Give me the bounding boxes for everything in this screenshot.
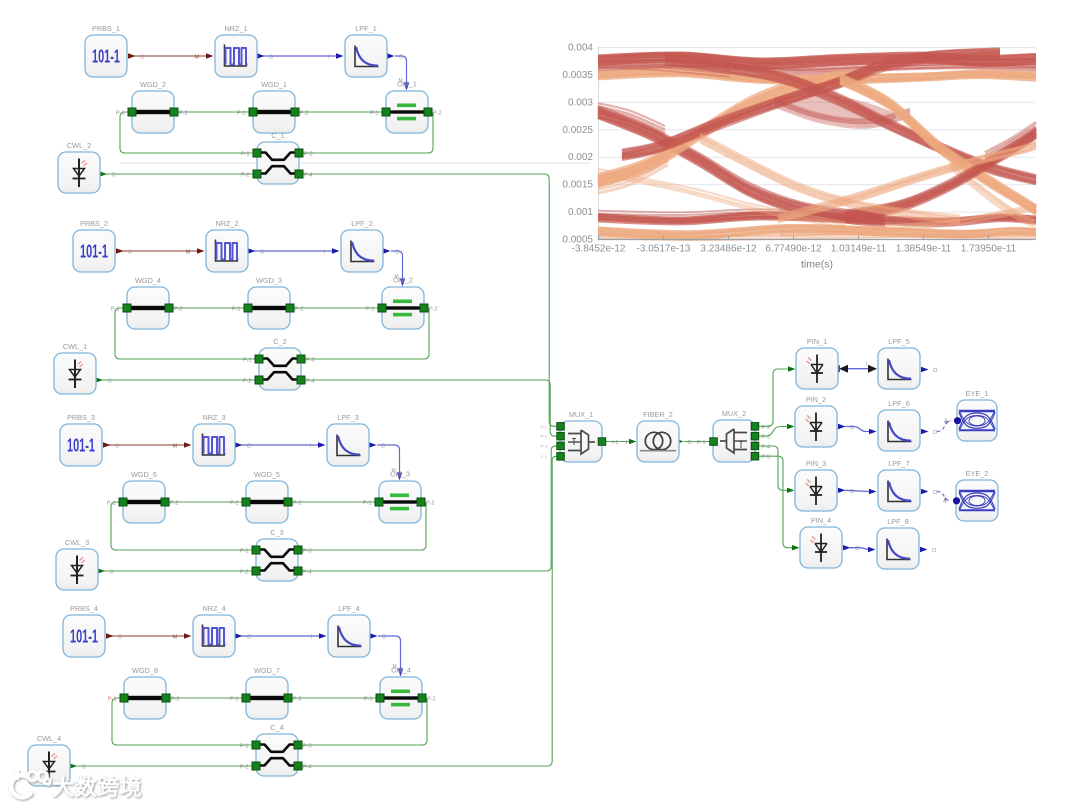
svg-text:101-1: 101-1 [70,627,98,647]
svg-text:P-2: P-2 [427,697,436,703]
svg-text:P-1: P-1 [364,697,373,703]
wire NRZ_4 to LPF_4 [241,635,319,637]
arrow OM_1 mod input [404,83,410,91]
svg-text:P-2: P-2 [300,111,309,117]
wire C_1 P-4 to MUX_1 P-1 [299,174,560,426]
arrow LPF_8 input [868,547,876,552]
port C_1 P-3 [295,149,303,157]
wire OM_2 P-2 loop to C_2 P-3 [301,308,429,359]
port MUX_1 P-4 [557,453,565,461]
arrow CWL_4 output [70,763,78,768]
svg-text:O: O [382,635,387,641]
svg-text:P-1: P-1 [366,307,375,313]
block LPF_1 body [345,35,387,77]
svg-text:CWL_1: CWL_1 [63,342,87,351]
svg-text:P-2: P-2 [241,173,250,179]
port WGD_2 P-2 [170,108,178,116]
svg-text:P-1: P-1 [230,501,239,507]
svg-text:I: I [324,250,325,256]
svg-text:101-1: 101-1 [80,242,108,262]
icon waveguide bar [249,696,285,700]
port C_1 P-2 [253,170,261,178]
svg-text:PRBS_4: PRBS_4 [70,604,98,613]
port C_4 P-3 [294,741,302,749]
svg-text:P-1: P-1 [237,111,246,117]
svg-text:-3.8452e-12: -3.8452e-12 [572,244,626,255]
svg-text:P-2: P-2 [426,501,435,507]
arrow OM_2 mod input [400,279,406,287]
block WGD_8 body [124,677,166,719]
trace bundle red left descending [598,107,885,225]
svg-text:P-3: P-3 [303,744,312,750]
port C_3 P-2 [252,567,260,575]
svg-text:CWL_2: CWL_2 [67,141,91,150]
block MUX_2 body [713,420,755,462]
block C_1 body [257,142,299,184]
svg-text:EYE_1: EYE_1 [966,389,989,398]
arrow PIN_1 link left [839,365,848,373]
port MUX_1 out [598,438,606,446]
arrow OM_4 mod input [398,669,404,677]
wire PRBS_1 to NRZ_1 [129,55,206,57]
wire PIN_4 to LPF_8 [850,548,868,550]
block FIBER_2 body [637,421,679,462]
wire LPF_2 to OM_2 [391,251,403,280]
icon PIN photodiode [806,413,823,442]
svg-text:P-1: P-1 [108,697,117,703]
tick PIN_1 output [838,365,841,372]
svg-text:C_1: C_1 [271,131,284,140]
wire OM_1 P-2 loop to C_1 P-3 [299,112,433,153]
svg-text:OM_4: OM_4 [391,666,411,675]
wire C_3 P-4 to MUX_1 P-3 [298,446,560,571]
svg-text:PRBS_3: PRBS_3 [67,413,95,422]
wire LPF_3 to OM_3 [377,445,400,474]
port OM_3 P-2 [417,498,425,506]
wire PIN_1 to LPF_5 (selected) [841,368,876,370]
block WGD_7 body [246,677,288,719]
trace bundle red right ascending wedge [985,123,1036,167]
svg-text:0.0025: 0.0025 [562,125,593,136]
svg-text:O: O [399,55,404,61]
icon CW laser [43,752,58,781]
arrow LPF_6 input [869,429,877,434]
trace bundle red right ascending [845,129,1036,221]
svg-text:P-2: P-2 [293,697,302,703]
wire NRZ_3 to LPF_3 [241,444,318,446]
icon CW laser [69,360,84,389]
block MUX_1 body [560,421,602,462]
svg-text:6.77490e-12: 6.77490e-12 [765,244,822,255]
arrow NRZ_4 output [235,633,243,638]
trace bundle orange bottom ascending [778,142,1036,222]
arrow LPF_1 output [387,53,395,58]
arrow PRBS_4 output [106,633,114,638]
svg-text:P-1: P-1 [240,744,249,750]
svg-text:PIN_1: PIN_1 [807,337,827,346]
port WGD_6 P-2 [161,498,169,506]
block PRBS_4 body [63,615,105,657]
svg-text:1.03149e-11: 1.03149e-11 [831,244,887,255]
arrow CWL_2 output [100,171,108,176]
wire CWL_3 to C_3 P-2 [101,570,256,572]
icon NRZ waveform [216,240,239,262]
chart x tick 0 [598,236,600,240]
port WGD_5 P-1 [242,498,250,506]
block CWL_2 body [58,152,100,193]
icon NRZ waveform [203,434,226,456]
port C_4 P-1 [252,741,260,749]
port MUX_1 P-3 [557,442,565,450]
svg-text:P-2: P-2 [240,765,249,771]
icon coupler waveguides [259,153,297,174]
block PRBS_2 body [73,230,115,272]
svg-text:P-1: P-1 [243,358,252,364]
icon demux [720,429,747,453]
block C_3 body [256,539,298,581]
icon PIN photodiode [806,477,823,506]
arrow LPF_6 output [921,429,929,434]
icon NRZ waveform [203,625,226,647]
icon mux [568,430,595,454]
arrow LPF_4 input [319,633,327,638]
trace bundle red bottom band [598,213,1036,226]
icon LPF exponential decay [355,46,379,67]
trace bundle orange right descending tail [950,162,1035,227]
block CWL_4 body [28,745,70,786]
wire OM_3 P-2 loop to C_3 P-3 [298,502,426,550]
svg-text:LPF_8: LPF_8 [887,517,909,526]
arrow OM_3 mod input [397,473,403,481]
svg-text:OM_3: OM_3 [390,470,410,479]
arrow NRZ_4 input [184,633,192,638]
block LPF_2 body [341,230,383,272]
port MUX_2 P-4 [751,442,759,450]
svg-text:NRZ_1: NRZ_1 [224,24,247,33]
wire WGD_8 to WGD_7 [166,697,246,699]
svg-text:M: M [173,635,178,641]
port C_3 P-1 [252,546,260,554]
svg-text:WGD_4: WGD_4 [135,276,161,285]
icon modulator electrodes [383,494,417,511]
svg-text:1.38549e-11: 1.38549e-11 [896,244,952,255]
svg-text:WGD_2: WGD_2 [140,80,166,89]
port C_3 P-3 [294,546,302,554]
svg-text:P-4: P-4 [541,454,548,459]
watermark logo [11,770,142,800]
svg-text:O: O [850,489,855,495]
port WGD_4 P-1 [123,304,131,312]
chart eye traces [598,49,1036,240]
icon LPF exponential decay [888,481,912,502]
icon coupler waveguides [258,550,296,571]
wire WGD_6 to WGD_5 [165,501,246,503]
block PIN_4 body [800,527,842,568]
block EYE_1 body [957,400,997,441]
svg-text:LPF_4: LPF_4 [338,604,360,613]
trace bundle orange bottom descending [700,134,960,223]
svg-text:0.003: 0.003 [568,97,593,108]
svg-text:C_3: C_3 [270,528,283,537]
svg-text:P-1: P-1 [232,307,241,313]
trace bundle orange top band [598,68,1036,83]
svg-text:O: O [933,490,938,496]
port OM_1 P-1 [382,108,390,116]
trace bundle orange left slow descending [598,169,845,228]
svg-text:WGD_1: WGD_1 [261,80,287,89]
svg-text:P-3: P-3 [306,358,315,364]
svg-text:WGD_5: WGD_5 [254,470,280,479]
svg-text:P-2: P-2 [429,307,438,313]
block LPF_3 body [327,424,369,466]
icon coupler waveguides [261,359,299,380]
port OM_4 P-2 [418,694,426,702]
port C_2 P-3 [297,355,305,363]
svg-text:O: O [118,635,123,641]
node EYE_2 input [953,497,960,504]
icon LPF exponential decay [888,359,912,380]
svg-text:O: O [260,250,265,256]
chart gridline 0.001 [599,211,1036,213]
port MUX_2 P-2 [751,423,759,431]
icon PIN photodiode [807,355,824,384]
svg-text:P-1: P-1 [116,111,125,117]
svg-text:LPF_7: LPF_7 [888,459,910,468]
svg-text:P-2: P-2 [293,501,302,507]
port C_2 P-1 [255,355,263,363]
svg-text:O: O [395,250,400,256]
svg-text:101-1: 101-1 [92,47,120,67]
icon LPF exponential decay [338,626,362,647]
svg-text:O: O [269,55,274,61]
svg-text:NRZ_4: NRZ_4 [202,604,225,613]
svg-text:1.73950e-11: 1.73950e-11 [961,244,1017,255]
arrow NRZ_2 output [248,248,256,253]
svg-text:I: I [866,362,867,368]
svg-text:LPF_6: LPF_6 [888,399,910,408]
svg-text:OM_1: OM_1 [397,80,417,89]
wire MUX_2 P-2 to PIN_1 [759,369,789,426]
port MUX_1 P-2 [557,432,565,440]
svg-text:O: O [855,546,860,552]
wire LPF_1 to OM_1 [395,56,407,84]
chart x tick 2 [728,236,730,240]
icon waveguide bar [251,306,287,310]
block PIN_2 body [795,406,837,447]
wire WGD_2 P-1 loop to C_1 P-1 [120,112,257,153]
svg-text:M: M [173,444,178,450]
icon LPF exponential decay [887,539,911,560]
arrow LPF_5 link right [868,365,877,373]
port MUX_2 P-3 [751,432,759,440]
arrow LPF_5 output [921,367,929,372]
block OM_1 body [386,91,428,133]
wire PRBS_4 to NRZ_4 [107,635,184,637]
port OM_3 P-1 [375,498,383,506]
trace bundle red left descending wedge [598,103,665,140]
arrow LPF_7 input [869,489,877,494]
chart x-axis [599,235,1036,240]
svg-text:CWL_4: CWL_4 [37,734,61,743]
trace red central dense region [774,93,896,124]
wire WGD_3 to OM_2 [290,307,382,309]
svg-text:M: M [186,250,191,256]
wire WGD_4 P-1 loop to C_2 P-1 [115,308,259,359]
svg-text:P-2: P-2 [541,434,548,439]
arrow LPF_2 output [383,248,391,253]
icon modulator electrodes [390,104,424,121]
svg-text:PIN_4: PIN_4 [811,516,831,525]
icon CW laser [71,556,86,585]
wire CWL_1 to C_2 P-2 [99,379,259,381]
arrow CWL_1 output [96,377,104,382]
wire FIBER_2 to MUX_2 [684,441,713,443]
arrow LPF_8 output [920,547,928,552]
trace bundle red top left wisps [598,61,730,77]
block OM_3 body [379,481,421,523]
svg-text:P-1: P-1 [370,111,379,117]
wire WGD_2 to WGD_1 [174,111,253,113]
arrow PIN_4 output [843,545,851,550]
icon eye diagram [959,491,995,510]
wire CWL_2 to C_1 P-2 [103,173,257,175]
chart gridline 0.0025 [599,129,1036,131]
svg-text:3.23486e-12: 3.23486e-12 [700,244,757,255]
svg-text:FIBER_2: FIBER_2 [643,410,673,419]
wire WGD_5 to OM_3 [288,501,379,503]
icon coupler waveguides [258,745,296,766]
svg-text:PRBS_2: PRBS_2 [80,219,108,228]
arrow EYE_1 input arrow [945,421,950,425]
svg-text:P-1: P-1 [240,549,249,555]
block NRZ_4 body [193,615,235,657]
port OM_2 P-1 [378,304,386,312]
svg-text:P-2: P-2 [762,425,771,431]
svg-text:P-2: P-2 [240,570,249,576]
svg-text:P-2: P-2 [179,111,188,117]
svg-text:WGD_3: WGD_3 [256,276,282,285]
svg-text:MUX_2: MUX_2 [722,409,746,418]
arrow LPF_2 input [332,248,340,253]
port WGD_8 P-1 [120,694,128,702]
block WGD_3 body [248,287,290,329]
chart x tick 1 [663,236,665,240]
block OM_2 body [382,287,424,329]
svg-text:P-1: P-1 [111,307,120,313]
wire WGD_4 to WGD_3 [169,307,248,309]
block LPF_8 body [877,528,919,569]
svg-text:O: O [247,444,252,450]
svg-text:C_2: C_2 [273,337,286,346]
svg-text:PIN_3: PIN_3 [806,459,826,468]
port OM_4 P-1 [376,694,384,702]
icon waveguide bar [135,110,171,114]
svg-text:P-3: P-3 [541,444,548,449]
svg-text:EYE_2: EYE_2 [966,469,989,478]
block EYE_2 body [956,480,998,521]
block LPF_7 body [878,470,920,511]
svg-text:P-1: P-1 [241,152,250,158]
wire PRBS_2 to NRZ_2 [117,250,197,252]
trace bundle orange left ascending wedge [598,150,668,193]
port WGD_7 P-2 [284,694,292,702]
chart gridline 0.0015 [599,184,1036,186]
svg-text:LPF_2: LPF_2 [351,219,373,228]
arrow PIN_3 input [787,488,795,493]
wire WGD_7 to OM_4 [288,697,380,699]
chart y-axis line [598,47,600,240]
svg-text:-3.0517e-13: -3.0517e-13 [637,244,691,255]
arrow LPF_3 output [369,442,377,447]
svg-text:LPF_5: LPF_5 [888,337,910,346]
icon waveguide bar [127,696,163,700]
trace bundle orange bottom lower streak [598,234,1036,240]
svg-text:CWL_3: CWL_3 [65,538,89,547]
icon NRZ waveform [225,45,248,67]
wire PIN_2 to LPF_6 [845,427,869,432]
arrow LPF_4 output [370,633,378,638]
svg-text:NRZ_3: NRZ_3 [202,413,225,422]
svg-text:P-2: P-2 [295,307,304,313]
wire CWL_4 to C_4 P-2 [73,765,256,767]
wire WGD_8 P-1 loop to C_4 P-1 [112,698,256,745]
chart x tick 4 [858,236,860,240]
block LPF_6 body [878,410,920,451]
svg-text:O: O [381,444,386,450]
svg-text:O: O [115,444,120,450]
port MUX_2 P-1 [710,438,718,446]
arrow FIBER_2 output [676,439,684,444]
watermark icon [11,770,50,797]
icon fiber coil [640,432,676,450]
port C_4 P-4 [294,762,302,770]
svg-text:P-2: P-2 [243,379,252,385]
svg-text:P-4: P-4 [303,765,312,771]
svg-text:0.002: 0.002 [568,152,593,163]
svg-text:O: O [688,440,693,446]
chart x tick 3 [793,236,795,240]
block OM_4 body [380,677,422,719]
wire LPF_6 to EYE_1 dashed [937,421,951,432]
svg-text:I-1: I-1 [612,440,618,446]
block CWL_3 body [56,549,98,590]
svg-text:PRBS_1: PRBS_1 [92,24,120,33]
chart gridline 0.002 [599,156,1036,158]
wire MUX_2 P-4 to PIN_3 [759,446,788,490]
svg-text:OM_2: OM_2 [393,276,413,285]
svg-text:O: O [933,368,938,374]
block C_2 body [259,348,301,390]
svg-text:M: M [195,55,200,61]
block LPF_4 body [328,615,370,657]
icon modulator electrodes [386,300,420,317]
svg-text:P-1: P-1 [107,501,116,507]
arrow CWL_3 output [98,568,106,573]
svg-text:WGD_7: WGD_7 [254,666,280,675]
port C_2 P-4 [297,376,305,384]
icon waveguide bar [126,500,162,504]
trace bundle orange bottom band [598,225,1036,238]
chart gridline 0.003 [599,101,1036,103]
arrow NRZ_1 output [257,53,265,58]
icon waveguide bar [256,110,292,114]
block WGD_6 body [123,481,165,523]
svg-text:0.004: 0.004 [568,43,593,54]
trace bundle red top band [598,53,1036,68]
arrow PIN_2 input [787,424,795,429]
arrow LPF_1 input [336,53,344,58]
svg-text:P-3: P-3 [304,152,313,158]
